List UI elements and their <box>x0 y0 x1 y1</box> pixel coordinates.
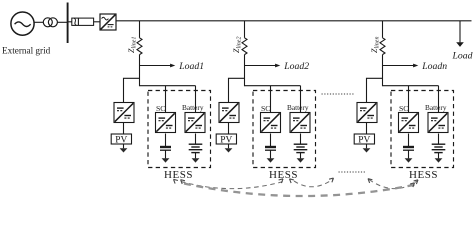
wire bus drop unit2 <box>244 21 246 38</box>
resistor Zlinen <box>380 38 385 55</box>
arrowhead arc C at HESS3 <box>410 183 414 187</box>
svg-text:HESS: HESS <box>164 169 193 181</box>
wire battery to ground unit3 <box>438 153 440 159</box>
wire HESS feed unit3 <box>383 85 439 87</box>
converter SC DC/DC unit3 <box>399 113 419 133</box>
arrowhead arc C at HESS1 <box>181 180 185 184</box>
svg-text:SC: SC <box>399 104 408 113</box>
PV source box unit1 <box>111 134 131 145</box>
transformer T1 <box>43 18 57 27</box>
comm arc HESS2-dots <box>294 179 333 187</box>
load arrow Loadn <box>383 64 419 68</box>
converter SC DC/DC unit1 <box>156 113 176 133</box>
svg-text:Load1: Load1 <box>178 61 204 72</box>
comm arc dots-HESS3 <box>369 180 417 189</box>
comm arc HESS1-HESS3 <box>184 184 416 197</box>
wire battery drop unit3 <box>438 86 440 113</box>
wire capacitor to ground unit2 <box>270 150 272 158</box>
wire PV branch unit2 <box>229 78 245 102</box>
supercapacitor unit3 <box>403 147 414 150</box>
svg-text:Load2: Load2 <box>283 61 309 72</box>
battery B1 <box>189 144 203 152</box>
wire bus drop unit1 <box>139 21 141 38</box>
wire PV branch unit3 <box>367 78 383 102</box>
ground arrow SC unit3 <box>405 158 413 162</box>
supercapacitor unit1 <box>160 147 171 150</box>
wire capacitor to ground unit1 <box>165 150 167 158</box>
load arrow Load (right end) <box>456 21 464 47</box>
wire battery to ground unit1 <box>195 153 197 159</box>
wire unit2 vertical <box>244 55 246 87</box>
comm arc HESS1-HESS2 <box>181 181 285 189</box>
DC bus <box>116 20 472 22</box>
wire bus drop unit3 <box>382 21 384 38</box>
PV source box unit2 <box>216 134 236 145</box>
HESS dashed box unit3 <box>391 91 454 168</box>
arrowhead arc B2 at HESS3 <box>414 180 418 184</box>
svg-text:PV: PV <box>115 135 127 145</box>
resistor Zline1 <box>137 38 142 55</box>
wire HESS feed unit1 <box>140 85 196 87</box>
battery B2 <box>294 144 308 152</box>
wire source to transformer <box>34 21 43 23</box>
wire PV converter to PV box unit1 <box>123 123 125 135</box>
wire battery converter to battery unit1 <box>195 134 197 145</box>
converter PV DC/DC unit1 <box>114 103 134 123</box>
wire busbar to breaker <box>68 21 72 23</box>
resistor Zline2 <box>242 38 247 55</box>
svg-text:Battery: Battery <box>425 103 447 112</box>
HESS dashed box unit2 <box>253 91 316 168</box>
converter PV DC/DC unit3 <box>357 103 377 123</box>
converter SC DC/DC unit2 <box>261 113 281 133</box>
AC source G1 <box>11 12 34 35</box>
svg-text:PV: PV <box>220 135 232 145</box>
ground arrow PV unit2 <box>225 144 233 153</box>
wire HESS feed unit2 <box>245 85 301 87</box>
wire battery converter to battery unit2 <box>300 134 302 145</box>
svg-text:HESS: HESS <box>409 169 438 181</box>
load arrow Load1 <box>140 64 176 68</box>
load arrow Load2 <box>245 64 281 68</box>
wire PV converter to PV box unit2 <box>228 123 230 135</box>
HESS dashed box unit1 <box>148 91 211 168</box>
svg-text:PV: PV <box>358 135 370 145</box>
svg-text:SC: SC <box>261 104 270 113</box>
wire SC converter to capacitor unit1 <box>165 134 167 147</box>
dots separator top <box>322 93 356 95</box>
supercapacitor unit2 <box>265 147 276 150</box>
ground arrow PV unit1 <box>120 144 128 153</box>
busbar <box>67 3 69 44</box>
svg-text:External grid: External grid <box>2 45 51 55</box>
dots separator bottom <box>339 171 367 173</box>
wire SC converter to capacitor unit3 <box>408 134 410 147</box>
circuit breaker QF <box>72 18 94 25</box>
wire battery converter to battery unit3 <box>438 134 440 145</box>
ground arrow battery unit3 <box>435 158 443 162</box>
arrowhead arc A at HESS1 <box>174 179 178 183</box>
ground arrow PV unit3 <box>363 144 371 153</box>
wire breaker to converter <box>94 21 100 23</box>
wire transformer to busbar <box>57 21 67 23</box>
ground arrow SC unit1 <box>162 158 170 162</box>
battery B3 <box>432 144 446 152</box>
converter battery DC/DC unit2 <box>290 113 310 133</box>
svg-text:Loadn: Loadn <box>421 61 447 72</box>
svg-text:Battery: Battery <box>182 103 204 112</box>
svg-text:HESS: HESS <box>269 169 298 181</box>
arrowhead arc A at HESS2 <box>279 179 283 183</box>
ground arrow SC unit2 <box>267 158 275 162</box>
PV source box unit3 <box>354 134 374 145</box>
ground arrow battery unit1 <box>192 158 200 162</box>
wire PV branch unit1 <box>124 78 140 102</box>
wire SC drop unit1 <box>165 86 167 113</box>
wire battery to ground unit2 <box>300 153 302 159</box>
arrowhead arc B2 at dots <box>368 179 372 183</box>
converter PV DC/DC unit2 <box>219 103 239 123</box>
wire capacitor to ground unit3 <box>408 150 410 158</box>
wire battery drop unit1 <box>195 86 197 113</box>
converter U0 AC/DC rectifier <box>100 14 116 30</box>
wire SC drop unit2 <box>270 86 272 113</box>
wire unit3 vertical <box>382 55 384 87</box>
svg-text:Load: Load <box>452 50 473 61</box>
wire SC drop unit3 <box>408 86 410 113</box>
wire unit1 vertical <box>139 55 141 87</box>
converter battery DC/DC unit3 <box>428 113 448 133</box>
ground arrow battery unit2 <box>297 158 305 162</box>
svg-text:SC: SC <box>156 104 165 113</box>
converter battery DC/DC unit1 <box>185 113 205 133</box>
wire SC converter to capacitor unit2 <box>270 134 272 147</box>
wire battery drop unit2 <box>300 86 302 113</box>
arrowhead arc B at dots <box>329 178 333 182</box>
arrowhead arc B at HESS2 <box>290 179 294 183</box>
wire PV converter to PV box unit3 <box>366 123 368 135</box>
svg-text:Battery: Battery <box>287 103 309 112</box>
